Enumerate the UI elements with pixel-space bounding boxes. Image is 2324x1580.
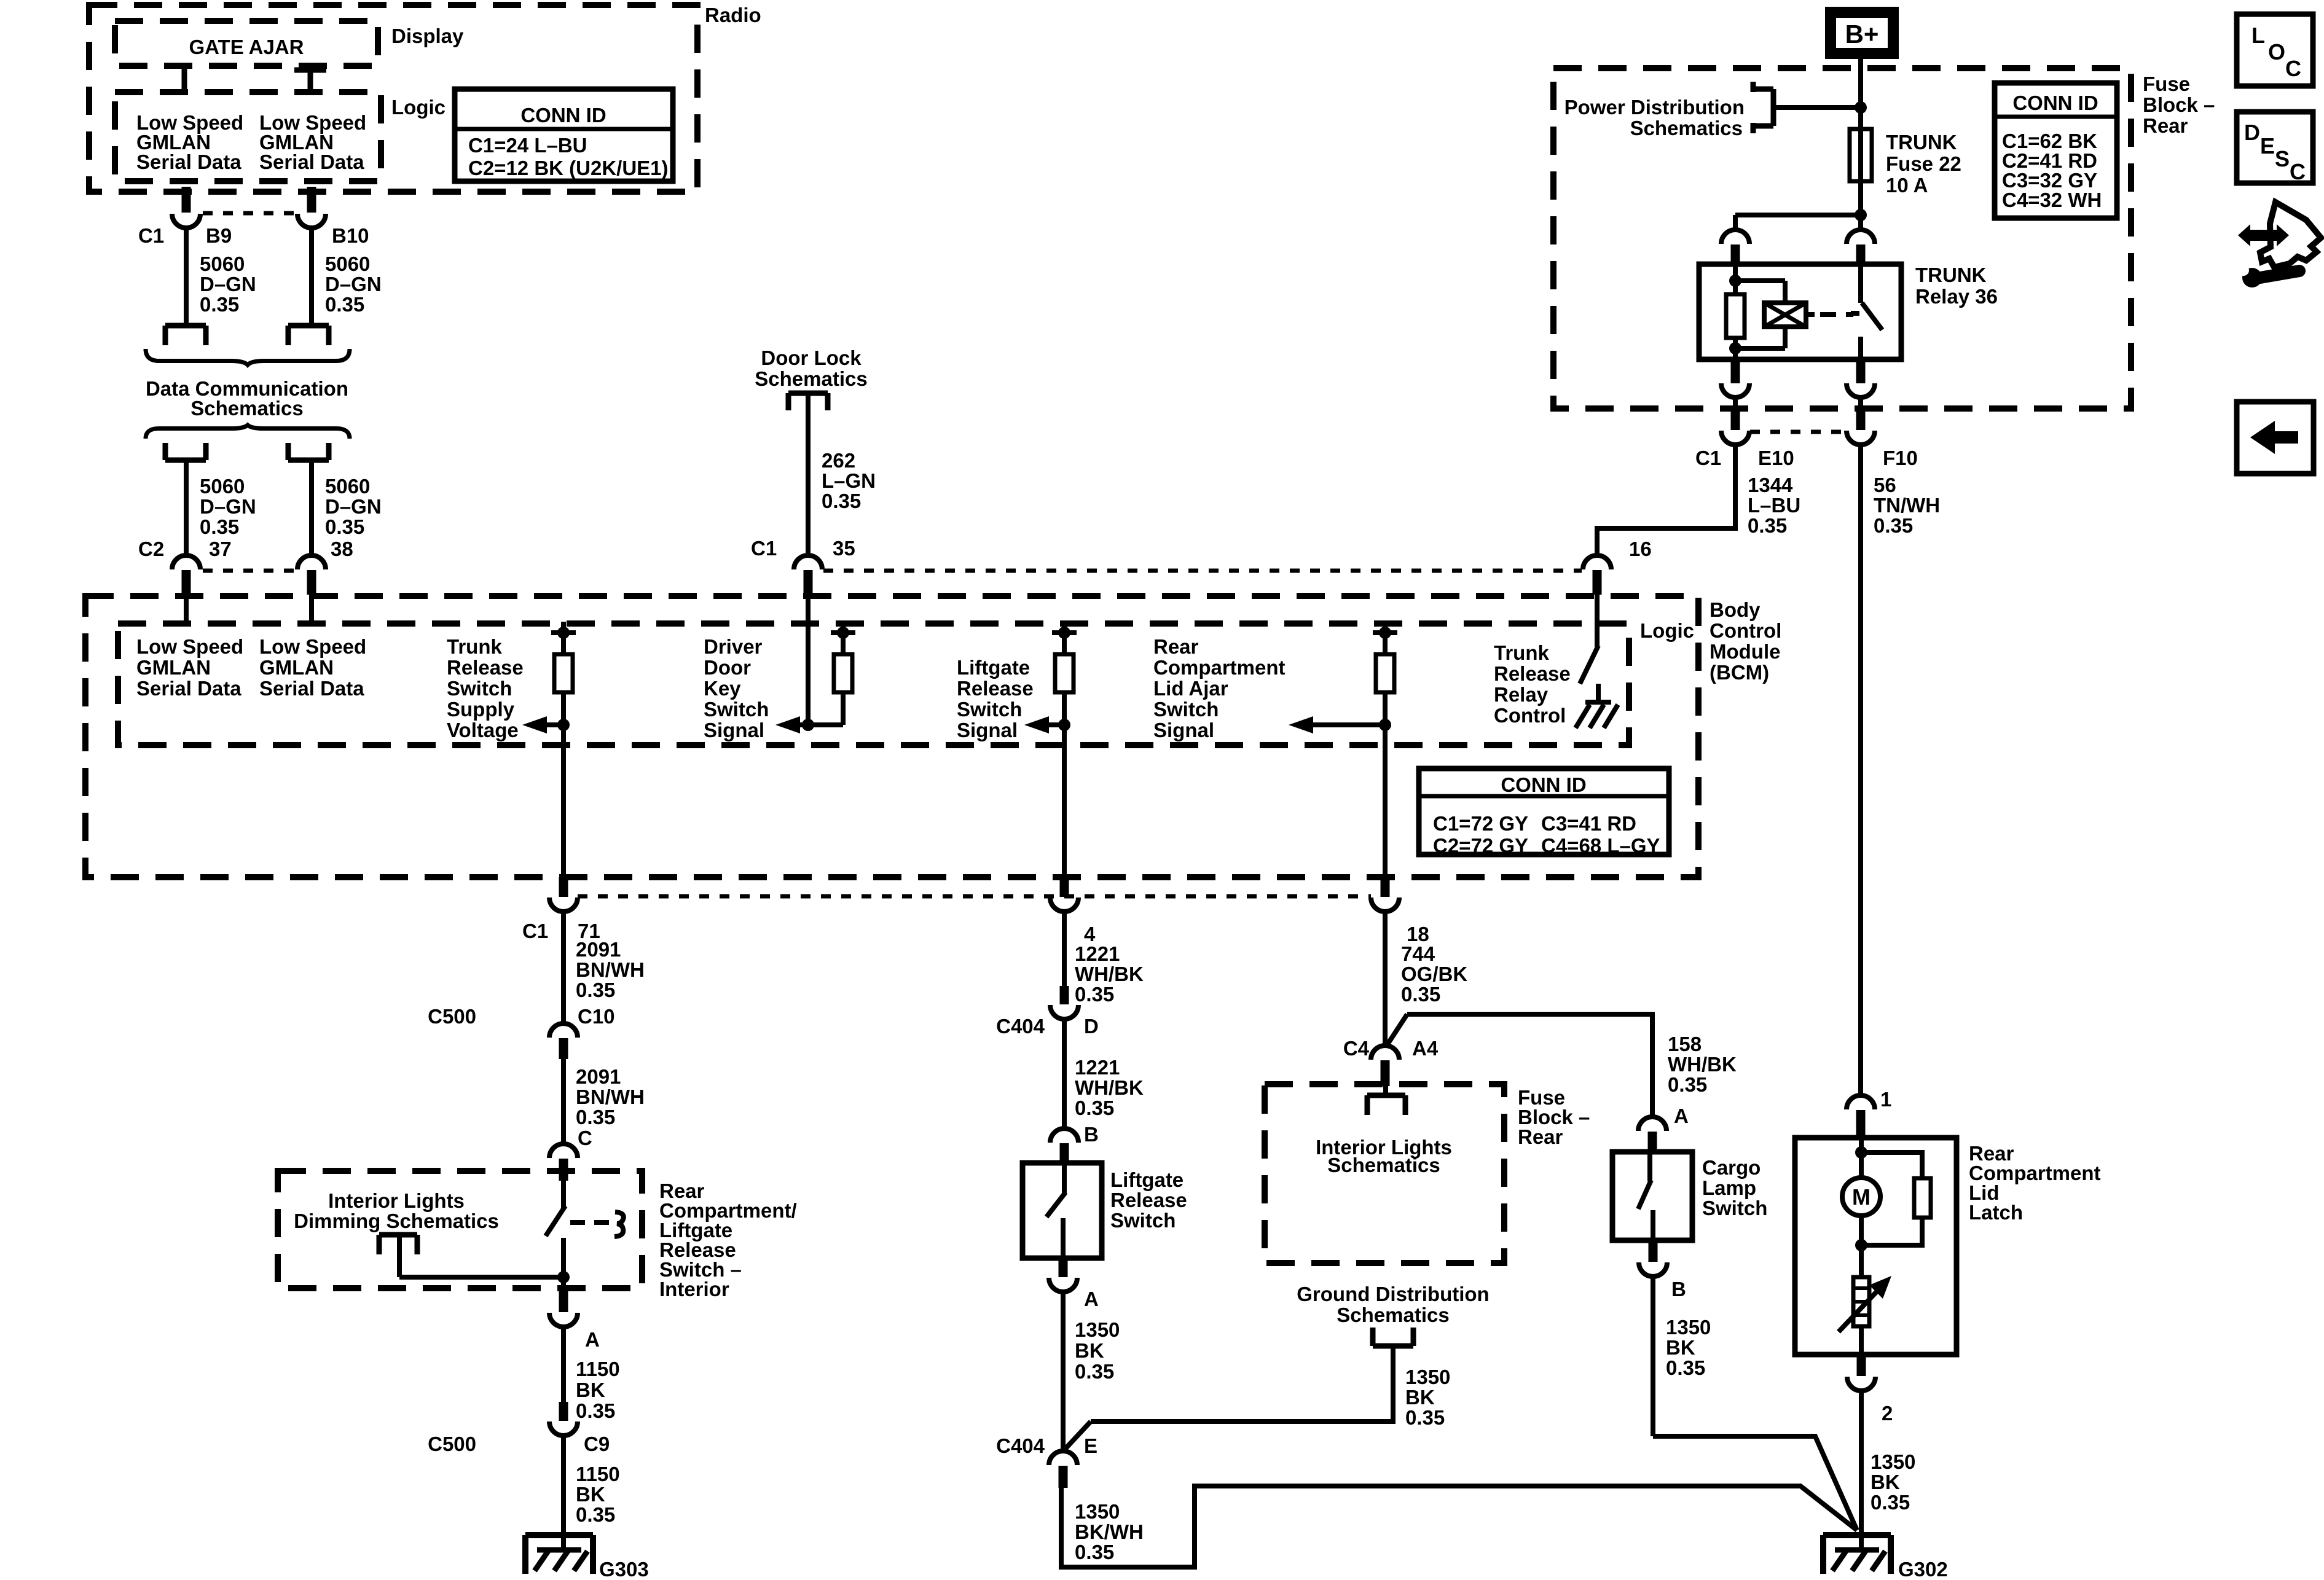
svg-text:Schematics: Schematics <box>1337 1304 1449 1326</box>
svg-text:0.35: 0.35 <box>1748 514 1787 537</box>
svg-text:0.35: 0.35 <box>1405 1406 1445 1429</box>
svg-text:16: 16 <box>1629 538 1652 560</box>
svg-text:C4=68 L–GY: C4=68 L–GY <box>1541 834 1660 857</box>
svg-text:TRUNK: TRUNK <box>1915 264 1987 286</box>
svg-text:5060: 5060 <box>200 252 245 275</box>
svg-text:Switch: Switch <box>957 698 1022 721</box>
svg-text:G303: G303 <box>599 1558 649 1580</box>
svg-text:1150: 1150 <box>576 1463 620 1485</box>
svg-text:TRUNK: TRUNK <box>1886 131 1957 154</box>
svg-text:Rear: Rear <box>1153 635 1199 658</box>
svg-text:C1: C1 <box>522 920 548 942</box>
svg-text:Switch: Switch <box>1702 1197 1767 1219</box>
svg-text:C1: C1 <box>751 537 777 560</box>
svg-text:E10: E10 <box>1758 447 1794 469</box>
svg-text:0.35: 0.35 <box>1871 1491 1910 1514</box>
svg-text:C: C <box>2290 159 2306 184</box>
svg-text:D: D <box>1084 1015 1099 1038</box>
svg-text:B10: B10 <box>332 224 369 247</box>
svg-text:Voltage: Voltage <box>447 719 519 741</box>
svg-text:A: A <box>1674 1105 1689 1127</box>
svg-text:0.35: 0.35 <box>1075 1541 1114 1563</box>
svg-text:B: B <box>1084 1123 1099 1146</box>
svg-text:744: 744 <box>1401 942 1435 965</box>
svg-text:Interior: Interior <box>659 1278 729 1300</box>
svg-text:Serial Data: Serial Data <box>259 677 364 700</box>
svg-text:Dimming Schematics: Dimming Schematics <box>294 1210 499 1232</box>
svg-text:O: O <box>2268 39 2285 65</box>
svg-text:C4=32 WH: C4=32 WH <box>2002 189 2102 211</box>
svg-text:BK: BK <box>576 1379 605 1401</box>
svg-text:C2=12 BK (U2K/UE1): C2=12 BK (U2K/UE1) <box>468 157 669 179</box>
svg-text:0.35: 0.35 <box>200 515 239 538</box>
svg-text:BK: BK <box>576 1483 605 1506</box>
svg-text:BK/WH: BK/WH <box>1075 1520 1144 1543</box>
svg-text:0.35: 0.35 <box>576 1399 615 1422</box>
svg-text:Logic: Logic <box>1640 619 1694 642</box>
svg-text:Relay: Relay <box>1494 683 1549 706</box>
svg-text:C2=72 GY: C2=72 GY <box>1433 834 1528 857</box>
svg-text:C3=41 RD: C3=41 RD <box>1541 812 1636 835</box>
svg-text:Relay 36: Relay 36 <box>1915 285 1998 308</box>
svg-text:Serial Data: Serial Data <box>136 151 241 173</box>
svg-text:Trunk: Trunk <box>1494 641 1549 664</box>
svg-text:Low Speed: Low Speed <box>136 635 243 658</box>
svg-text:Low Speed: Low Speed <box>259 635 366 658</box>
svg-text:G302: G302 <box>1898 1558 1948 1580</box>
svg-text:0.35: 0.35 <box>325 515 364 538</box>
svg-text:E: E <box>1084 1434 1097 1457</box>
svg-text:Signal: Signal <box>957 719 1018 741</box>
svg-text:D: D <box>2244 120 2260 145</box>
svg-text:0.35: 0.35 <box>1075 1360 1114 1383</box>
svg-text:C1=72 GY: C1=72 GY <box>1433 812 1528 835</box>
svg-text:B: B <box>1671 1278 1686 1300</box>
svg-text:Latch: Latch <box>1969 1201 2023 1224</box>
svg-text:B+: B+ <box>1845 20 1879 49</box>
svg-text:GMLAN: GMLAN <box>136 656 211 679</box>
svg-text:35: 35 <box>833 537 855 560</box>
svg-text:Release: Release <box>1494 662 1571 685</box>
svg-text:C500: C500 <box>428 1005 476 1028</box>
svg-text:Signal: Signal <box>704 719 764 741</box>
svg-text:L: L <box>2251 23 2265 48</box>
svg-text:0.35: 0.35 <box>1401 983 1440 1006</box>
svg-text:Control: Control <box>1710 619 1781 642</box>
svg-text:BN/WH: BN/WH <box>576 958 645 981</box>
svg-text:Schematics: Schematics <box>1630 117 1743 139</box>
svg-text:Body: Body <box>1710 598 1761 621</box>
svg-text:0.35: 0.35 <box>1668 1073 1707 1096</box>
svg-text:1221: 1221 <box>1075 1056 1120 1079</box>
svg-text:C1=24 L–BU: C1=24 L–BU <box>468 134 587 157</box>
svg-text:1350: 1350 <box>1075 1500 1120 1523</box>
svg-text:0.35: 0.35 <box>1075 1097 1114 1119</box>
svg-text:2091: 2091 <box>576 1065 621 1088</box>
svg-text:Serial Data: Serial Data <box>136 677 241 700</box>
svg-text:WH/BK: WH/BK <box>1075 1076 1144 1099</box>
svg-text:D–GN: D–GN <box>325 495 382 518</box>
svg-text:Switch: Switch <box>447 677 512 700</box>
svg-text:GATE AJAR: GATE AJAR <box>189 36 304 58</box>
svg-text:0.35: 0.35 <box>576 979 615 1001</box>
svg-text:CONN ID: CONN ID <box>2012 92 2098 114</box>
svg-text:Block –: Block – <box>2143 93 2215 116</box>
svg-text:CONN ID: CONN ID <box>1501 773 1586 796</box>
svg-text:5060: 5060 <box>325 475 370 498</box>
svg-text:158: 158 <box>1668 1033 1702 1055</box>
svg-text:TN/WH: TN/WH <box>1874 494 1940 517</box>
svg-text:Ground Distribution: Ground Distribution <box>1297 1283 1489 1305</box>
svg-text:Lamp: Lamp <box>1702 1176 1756 1199</box>
svg-text:S: S <box>2275 146 2290 171</box>
svg-text:10 A: 10 A <box>1886 174 1928 197</box>
svg-text:0.35: 0.35 <box>1874 514 1913 537</box>
svg-text:0.35: 0.35 <box>576 1503 615 1526</box>
svg-text:WH/BK: WH/BK <box>1075 963 1144 985</box>
svg-text:0.35: 0.35 <box>576 1106 615 1128</box>
svg-text:Switch: Switch <box>704 698 769 721</box>
svg-text:C1: C1 <box>1695 447 1721 469</box>
svg-text:Cargo: Cargo <box>1702 1156 1761 1179</box>
svg-text:Liftgate: Liftgate <box>1110 1168 1184 1191</box>
svg-text:Liftgate: Liftgate <box>957 656 1030 679</box>
svg-text:Schematics: Schematics <box>755 367 867 390</box>
svg-text:0.35: 0.35 <box>822 490 861 512</box>
svg-text:C9: C9 <box>584 1433 610 1455</box>
svg-text:Switch: Switch <box>1110 1209 1176 1232</box>
svg-text:A: A <box>1084 1288 1099 1310</box>
svg-text:E: E <box>2260 133 2275 158</box>
svg-text:1350: 1350 <box>1075 1318 1120 1341</box>
svg-text:C404: C404 <box>996 1434 1045 1457</box>
svg-text:Door: Door <box>704 656 751 679</box>
svg-text:Trunk: Trunk <box>447 635 502 658</box>
svg-text:D–GN: D–GN <box>325 273 382 295</box>
svg-text:A: A <box>585 1328 600 1351</box>
svg-text:C404: C404 <box>996 1015 1045 1038</box>
svg-text:1221: 1221 <box>1075 942 1120 965</box>
svg-text:BK: BK <box>1666 1336 1695 1359</box>
svg-text:Release: Release <box>447 656 524 679</box>
svg-text:Schematics: Schematics <box>190 397 303 420</box>
svg-text:F10: F10 <box>1883 447 1918 469</box>
svg-text:D–GN: D–GN <box>200 495 256 518</box>
svg-text:1350: 1350 <box>1405 1366 1450 1388</box>
svg-text:C2: C2 <box>138 538 164 560</box>
svg-text:Radio: Radio <box>705 4 761 26</box>
svg-text:M: M <box>1852 1184 1871 1210</box>
svg-text:L–GN: L–GN <box>822 469 876 492</box>
svg-text:C4: C4 <box>1343 1037 1370 1060</box>
svg-text:0.35: 0.35 <box>1075 983 1114 1006</box>
svg-text:Driver: Driver <box>704 635 763 658</box>
svg-text:BN/WH: BN/WH <box>576 1085 645 1108</box>
svg-text:Interior Lights: Interior Lights <box>328 1189 465 1212</box>
svg-text:Serial Data: Serial Data <box>259 151 364 173</box>
svg-text:Signal: Signal <box>1153 719 1214 741</box>
svg-text:WH/BK: WH/BK <box>1668 1053 1737 1076</box>
svg-text:C: C <box>578 1127 592 1149</box>
svg-text:B9: B9 <box>206 224 232 247</box>
svg-text:BK: BK <box>1405 1386 1435 1409</box>
svg-text:C500: C500 <box>428 1433 476 1455</box>
svg-text:C1: C1 <box>138 224 164 247</box>
svg-text:Fuse 22: Fuse 22 <box>1886 152 1961 175</box>
svg-text:BK: BK <box>1075 1339 1104 1362</box>
svg-text:L–BU: L–BU <box>1748 494 1800 517</box>
svg-text:37: 37 <box>209 538 232 560</box>
svg-text:C10: C10 <box>578 1005 615 1028</box>
svg-text:262: 262 <box>822 449 855 472</box>
svg-text:Key: Key <box>704 677 741 700</box>
svg-text:Compartment: Compartment <box>1153 656 1286 679</box>
svg-text:C: C <box>2285 56 2301 81</box>
svg-text:Supply: Supply <box>447 698 515 721</box>
svg-text:1344: 1344 <box>1748 474 1793 496</box>
svg-text:Lid Ajar: Lid Ajar <box>1153 677 1228 700</box>
svg-text:56: 56 <box>1874 474 1896 496</box>
svg-text:CONN ID: CONN ID <box>520 104 606 127</box>
svg-text:GMLAN: GMLAN <box>259 656 334 679</box>
svg-text:Logic: Logic <box>391 96 446 119</box>
svg-text:5060: 5060 <box>325 252 370 275</box>
svg-text:38: 38 <box>331 538 353 560</box>
svg-text:1350: 1350 <box>1871 1450 1915 1473</box>
svg-text:1: 1 <box>1880 1088 1891 1111</box>
svg-text:Release: Release <box>1110 1189 1187 1211</box>
svg-text:Schematics: Schematics <box>1327 1154 1440 1176</box>
svg-text:Switch: Switch <box>1153 698 1219 721</box>
svg-text:Door Lock: Door Lock <box>761 346 862 369</box>
svg-text:D–GN: D–GN <box>200 273 256 295</box>
svg-text:5060: 5060 <box>200 475 245 498</box>
svg-text:0.35: 0.35 <box>200 293 239 316</box>
svg-text:2091: 2091 <box>576 938 621 961</box>
svg-text:Rear: Rear <box>2143 114 2188 137</box>
svg-text:A4: A4 <box>1412 1037 1439 1060</box>
svg-text:Fuse: Fuse <box>2143 72 2190 95</box>
svg-text:2: 2 <box>1882 1402 1893 1425</box>
svg-text:Module: Module <box>1710 640 1780 663</box>
svg-text:Release: Release <box>957 677 1034 700</box>
svg-text:(BCM): (BCM) <box>1710 661 1769 684</box>
svg-text:OG/BK: OG/BK <box>1401 963 1467 985</box>
svg-text:1350: 1350 <box>1666 1316 1711 1339</box>
svg-text:BK: BK <box>1871 1471 1900 1493</box>
svg-text:Power Distribution: Power Distribution <box>1564 96 1745 119</box>
svg-text:Rear: Rear <box>1518 1125 1563 1148</box>
svg-text:Display: Display <box>391 25 464 47</box>
svg-text:0.35: 0.35 <box>325 293 364 316</box>
svg-text:Control: Control <box>1494 704 1566 727</box>
svg-text:0.35: 0.35 <box>1666 1356 1705 1379</box>
svg-text:1150: 1150 <box>576 1358 620 1380</box>
